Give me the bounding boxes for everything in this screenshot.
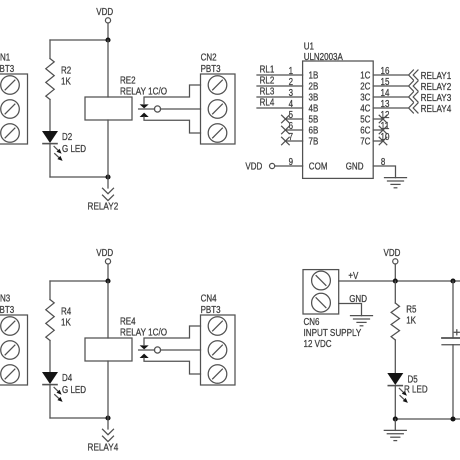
wire NC contact to CN2 pin 1	[144, 85, 201, 104]
wire NC contact to CN4 pin 1	[144, 326, 201, 345]
wire +V to resistor R5	[394, 281, 396, 303]
relay coil RE4	[107, 281, 109, 338]
junction (cap top)	[450, 278, 455, 283]
svg-text:1K: 1K	[61, 318, 71, 329]
connector CN3 (3-way terminal block, cut at left edge)	[0, 315, 28, 385]
svg-text:RELAY4: RELAY4	[88, 442, 119, 453]
svg-text:14: 14	[381, 88, 390, 99]
svg-text:3: 3	[289, 88, 294, 99]
wire NO contact to CN4 pin 3	[144, 358, 201, 374]
svg-text:3C: 3C	[360, 93, 370, 104]
svg-text:CN6: CN6	[304, 317, 320, 328]
junction	[393, 278, 398, 283]
no-connect X pin 11	[379, 126, 387, 134]
svg-text:5: 5	[289, 110, 294, 121]
svg-text:4: 4	[289, 99, 294, 110]
svg-text:5C: 5C	[360, 115, 370, 126]
wire ground rail	[395, 418, 460, 420]
svg-text:PBT3: PBT3	[0, 64, 15, 75]
connector CN6 (2-way terminal block)	[303, 270, 339, 314]
svg-text:RELAY3: RELAY3	[421, 93, 452, 104]
power VDD	[105, 259, 110, 264]
svg-text:G LED: G LED	[62, 144, 86, 155]
svg-text:7B: 7B	[309, 137, 319, 148]
svg-text:6C: 6C	[360, 126, 370, 137]
svg-text:RELAY1: RELAY1	[421, 71, 452, 82]
wire +V rail	[339, 280, 460, 282]
port RELAY4 chevron	[409, 103, 414, 113]
svg-text:12 VDC: 12 VDC	[304, 339, 332, 350]
svg-text:2C: 2C	[360, 82, 370, 93]
svg-text:1: 1	[289, 66, 294, 77]
wire NO contact to CN2 pin 3	[144, 117, 201, 133]
svg-text:15: 15	[381, 77, 390, 88]
svg-text:RL3: RL3	[260, 87, 275, 98]
wire bottom rail	[50, 176, 108, 178]
svg-text:D2: D2	[62, 132, 73, 143]
svg-text:6B: 6B	[309, 126, 319, 137]
junction	[105, 415, 110, 420]
pin 9 wire (COM)	[275, 165, 303, 167]
wire ground stub	[394, 419, 396, 430]
pin 13 wire (output 4C)	[373, 107, 408, 109]
wire resistor R5 to LED D5	[394, 340, 396, 373]
port RELAY4 (off-page arrow)	[107, 418, 109, 429]
wire capacitor to ground rail	[452, 345, 454, 419]
power VDD (supply)	[393, 259, 398, 264]
svg-text:7C: 7C	[360, 137, 370, 148]
svg-text:CN1: CN1	[0, 53, 11, 64]
svg-text:R4: R4	[61, 307, 72, 318]
no-connect X pin 5	[282, 115, 290, 123]
svg-text:R5: R5	[406, 304, 417, 315]
svg-text:VDD: VDD	[384, 248, 401, 259]
pin 12 wire (output 5C, no connect)	[373, 118, 383, 120]
no-connect X pin 7	[282, 137, 290, 145]
wire resistor to LED	[49, 341, 51, 373]
IC U1 ULN2003A body	[303, 61, 374, 178]
svg-text:U1: U1	[304, 41, 315, 52]
no-connect X pin 6	[282, 126, 290, 134]
pin 7 wire (input 7B, no connect)	[285, 140, 302, 142]
svg-text:CN2: CN2	[201, 53, 217, 64]
svg-text:INPUT SUPPLY: INPUT SUPPLY	[304, 328, 362, 339]
svg-text:RELAY2: RELAY2	[421, 82, 452, 93]
wire pole to CN2 pin 2	[160, 108, 200, 110]
svg-text:12: 12	[381, 110, 390, 121]
svg-text:PBT3: PBT3	[201, 305, 221, 316]
svg-text:7: 7	[289, 132, 294, 143]
no-connect X pin 10	[379, 137, 387, 145]
svg-text:ULN2003A: ULN2003A	[304, 52, 343, 63]
svg-text:1K: 1K	[406, 316, 416, 327]
resistor R4 1K	[46, 300, 54, 341]
junction	[105, 37, 110, 42]
svg-text:RE2: RE2	[120, 76, 136, 87]
svg-text:RELAY2: RELAY2	[88, 201, 119, 212]
port RELAY2 (off-page arrow)	[107, 177, 109, 188]
svg-text:2B: 2B	[309, 82, 319, 93]
wire VDD rail to resistor	[50, 280, 108, 282]
LED D2 (green)	[42, 131, 58, 143]
svg-text:R2: R2	[61, 66, 72, 77]
pin 14 wire (output 3C)	[373, 96, 408, 98]
wire bottom rail	[50, 417, 108, 419]
wire resistor to LED	[49, 100, 51, 132]
pin 8 wire (GND)	[373, 166, 395, 178]
pin 16 wire (output 1C)	[373, 74, 408, 76]
svg-text:6: 6	[289, 121, 294, 132]
svg-text:4B: 4B	[309, 104, 319, 115]
junction	[105, 278, 110, 283]
svg-text:16: 16	[381, 66, 390, 77]
LED D4 (green)	[42, 372, 58, 384]
relay coil RE2	[107, 40, 109, 97]
svg-text:GND: GND	[346, 161, 364, 172]
svg-text:VDD: VDD	[96, 7, 113, 18]
svg-text:4C: 4C	[360, 104, 370, 115]
svg-text:2: 2	[289, 77, 294, 88]
port RELAY2 chevron	[409, 81, 414, 91]
pin 4 wire (input 4B)	[257, 107, 303, 109]
svg-text:RL4: RL4	[260, 98, 275, 109]
svg-text:RELAY 1C/O: RELAY 1C/O	[120, 86, 167, 97]
svg-text:11: 11	[381, 121, 390, 132]
svg-text:13: 13	[381, 99, 390, 110]
svg-text:RL1: RL1	[260, 65, 275, 76]
svg-text:D5: D5	[408, 374, 419, 385]
pin 1 wire (input 1B)	[257, 74, 303, 76]
wire rail to resistor	[49, 281, 51, 300]
svg-text:R LED: R LED	[404, 385, 428, 396]
svg-text:RL2: RL2	[260, 76, 275, 87]
wire LED D5 to ground rail	[394, 386, 396, 419]
pin 6 wire (input 6B, no connect)	[285, 129, 302, 131]
junction	[105, 174, 110, 179]
svg-text:RELAY4: RELAY4	[421, 104, 452, 115]
svg-text:3B: 3B	[309, 93, 319, 104]
ground at CN6	[351, 315, 373, 317]
resistor R2 1K	[46, 59, 54, 100]
power VDD at COM pin	[270, 163, 275, 168]
pin 5 wire (input 5B, no connect)	[285, 118, 302, 120]
relay contact RE2 (1 c/o)	[139, 108, 155, 110]
port RELAY1 chevron	[409, 70, 414, 80]
wire GND from CN6	[339, 304, 362, 316]
connector CN2 (3-way terminal block)	[201, 74, 236, 144]
svg-text:9: 9	[289, 157, 294, 168]
connector CN1 (3-way terminal block, cut at left edge)	[0, 74, 28, 144]
svg-text:RE4: RE4	[120, 317, 136, 328]
svg-text:10: 10	[381, 132, 390, 143]
port RELAY3 chevron	[409, 92, 414, 102]
pin 15 wire (output 2C)	[373, 85, 408, 87]
pin 10 wire (output 7C, no connect)	[373, 140, 383, 142]
svg-text:PBT3: PBT3	[201, 64, 221, 75]
svg-text:RELAY 1C/O: RELAY 1C/O	[120, 327, 167, 338]
wire VDD rail to resistor	[50, 39, 108, 41]
svg-text:GND: GND	[349, 294, 367, 305]
ground at U1 pin 8	[385, 177, 407, 179]
power VDD	[105, 18, 110, 23]
svg-text:VDD: VDD	[245, 161, 262, 172]
svg-text:1K: 1K	[61, 77, 71, 88]
svg-text:+V: +V	[348, 271, 358, 282]
svg-text:CN3: CN3	[0, 294, 11, 305]
junction (cap bottom)	[450, 416, 455, 421]
svg-text:D4: D4	[62, 373, 73, 384]
LED D5 (red)	[387, 373, 403, 385]
svg-text:5B: 5B	[309, 115, 319, 126]
pin 11 wire (output 6C, no connect)	[373, 129, 383, 131]
junction	[393, 416, 398, 421]
svg-text:G LED: G LED	[62, 385, 86, 396]
svg-text:CN4: CN4	[201, 294, 217, 305]
wire LED to bottom rail	[49, 385, 51, 418]
pin 3 wire (input 3B)	[257, 96, 303, 98]
label + (capacitor polarity)	[454, 331, 459, 333]
wire LED to bottom rail	[49, 144, 51, 177]
wire +V to capacitor	[452, 281, 454, 338]
no-connect X pin 12	[379, 115, 387, 123]
pin 2 wire (input 2B)	[257, 85, 303, 87]
resistor R5 1K	[391, 303, 399, 340]
relay contact RE4 (1 c/o)	[139, 349, 155, 351]
svg-text:PBT3: PBT3	[0, 305, 15, 316]
svg-text:COM: COM	[309, 161, 328, 172]
svg-text:1B: 1B	[309, 71, 319, 82]
capacitor C1 (polarised, cut at right edge)	[442, 337, 460, 339]
svg-text:8: 8	[381, 157, 386, 168]
svg-text:VDD: VDD	[96, 248, 113, 259]
connector CN4 (3-way terminal block)	[201, 315, 236, 385]
wire pole to CN4 pin 2	[160, 349, 200, 351]
ground at D5	[384, 429, 406, 431]
svg-text:1C: 1C	[360, 71, 370, 82]
wire rail to resistor	[49, 40, 51, 59]
